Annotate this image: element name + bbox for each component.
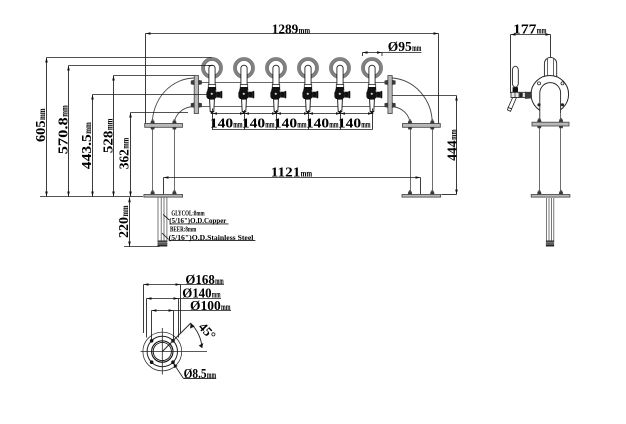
svg-text:220: 220: [117, 217, 132, 238]
220 dim: [129, 197, 131, 246]
svg-text:Ø95: Ø95: [388, 40, 412, 55]
svg-text:444: 444: [445, 140, 460, 161]
svg-text:140: 140: [242, 117, 265, 132]
svg-text:140: 140: [210, 117, 233, 132]
svg-text:570.8: 570.8: [57, 117, 72, 154]
svg-text:mm: mm: [361, 121, 370, 131]
svg-text:mm: mm: [121, 138, 131, 149]
tube below: [546, 198, 548, 241]
right base plate: [408, 190, 412, 194]
1289 dim: [146, 33, 439, 35]
glycol leaders: [163, 215, 169, 221]
left stack verticals: [46, 58, 48, 197]
svg-text:BEER:8mm: BEER:8mm: [170, 226, 196, 234]
444 dim right: [392, 95, 456, 97]
O8.5 leader: [173, 363, 183, 378]
rotated left dims: [34, 105, 460, 238]
base plate: [537, 190, 541, 194]
faucet barrel side: [511, 92, 531, 97]
faucet 1: [202, 58, 223, 114]
svg-text:1121: 1121: [271, 166, 301, 181]
svg-text:(5/16")O.D.Stainless Steel: (5/16")O.D.Stainless Steel: [169, 234, 254, 242]
O8.5 leader arrow: [173, 363, 177, 368]
1121 dim: [164, 177, 421, 179]
U tube cutout: [540, 83, 561, 122]
detail circle dims: [144, 284, 225, 286]
svg-text:(5/16")O.D.Copper: (5/16")O.D.Copper: [169, 217, 226, 225]
svg-text:177: 177: [513, 23, 537, 38]
svg-text:mm: mm: [84, 122, 94, 134]
svg-text:mm: mm: [61, 105, 71, 117]
140 chain: [213, 112, 218, 114]
svg-text:mm: mm: [221, 303, 231, 313]
svg-text:mm: mm: [121, 205, 131, 216]
O95 dim: [363, 52, 422, 54]
177: [511, 33, 516, 36]
svg-text:140: 140: [338, 117, 361, 132]
left leg flange plate: [150, 119, 154, 123]
svg-text:mm: mm: [207, 371, 216, 381]
flange plate: [537, 118, 541, 122]
svg-text:mm: mm: [449, 129, 459, 140]
svg-text:Ø8.5: Ø8.5: [184, 367, 207, 382]
left leg: [152, 124, 154, 194]
svg-text:mm: mm: [301, 170, 313, 180]
detail dims: [144, 283, 149, 286]
1121: [164, 176, 169, 179]
bolt holes: [538, 82, 541, 85]
svg-text:528: 528: [101, 131, 116, 154]
faucet 5: [330, 58, 351, 114]
right leg flange plate: [408, 119, 412, 123]
faucet 4: [298, 58, 319, 114]
column lines: [539, 113, 541, 194]
right pipe flange: [388, 76, 392, 114]
svg-text:1289: 1289: [272, 22, 299, 37]
1289: [146, 32, 151, 35]
svg-text:mm: mm: [412, 44, 421, 54]
pipe horizontal body: [196, 82, 390, 84]
handle grip: [512, 66, 518, 87]
left base plate: [150, 190, 154, 194]
svg-text:140: 140: [306, 117, 329, 132]
svg-text:140: 140: [274, 117, 297, 132]
ext line over faucet1 capsule: [208, 65, 213, 67]
arrowheads: [45, 32, 550, 368]
right leg: [410, 124, 412, 194]
elbow left: [152, 78, 194, 124]
svg-text:443.5: 443.5: [80, 134, 95, 169]
big circle body: [531, 76, 569, 114]
top capsule (medallion edge): [544, 57, 556, 80]
faucet 2: [234, 58, 255, 114]
svg-text:mm: mm: [105, 119, 115, 131]
svg-text:362: 362: [117, 149, 132, 169]
177 dim: [511, 34, 551, 36]
svg-text:605: 605: [34, 121, 49, 143]
glycol block: [169, 210, 254, 242]
spout side: [508, 98, 516, 109]
elbow right: [392, 78, 432, 124]
faucet 6: [362, 58, 383, 114]
svg-text:mm: mm: [215, 277, 224, 287]
faucet 3: [266, 58, 287, 114]
left pipe flange: [194, 76, 198, 114]
tube bundle below left base: [157, 198, 159, 242]
left stack horizontals: [47, 57, 212, 59]
45 deg: [162, 323, 191, 352]
vertical dims arrows up/down: [45, 58, 48, 63]
svg-text:mm: mm: [38, 108, 48, 120]
O95: [363, 51, 368, 54]
140 chain dim: [212, 113, 373, 115]
svg-text:mm: mm: [537, 27, 547, 37]
svg-text:Ø100: Ø100: [190, 299, 221, 314]
svg-text:mm: mm: [299, 26, 311, 36]
